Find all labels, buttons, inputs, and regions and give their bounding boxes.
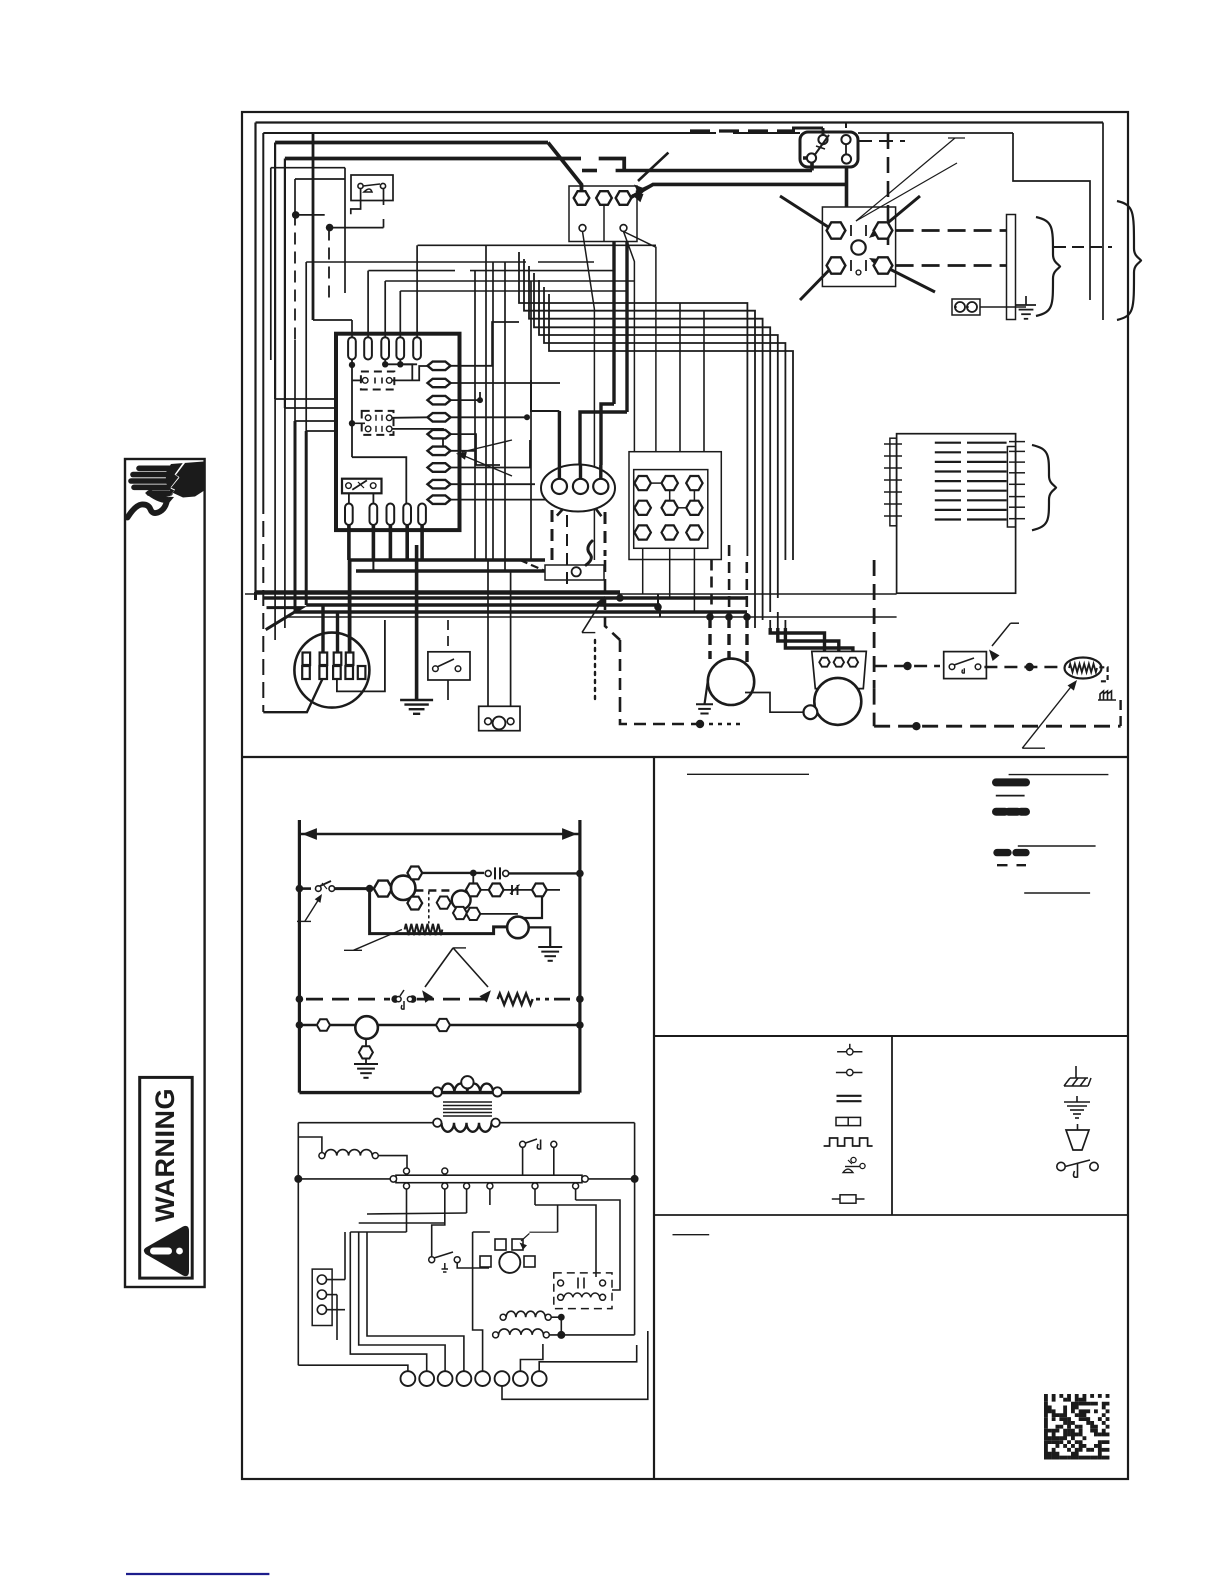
wire thick pair to pressure switch: [582, 169, 597, 173]
wire riser col B: [328, 229, 330, 303]
run capacitor: [812, 651, 867, 688]
symbol: thermostat switch: [1057, 1162, 1065, 1170]
circular plug connector: [294, 633, 369, 708]
blade: [815, 135, 829, 155]
wire igniter lead 1: [487, 560, 489, 706]
wire pin6: [451, 450, 476, 452]
svg-text:WARNING: WARNING: [150, 1088, 180, 1222]
board edge connector pills top: [348, 337, 356, 359]
legend rule 3: [1024, 892, 1090, 894]
wire t4: [367, 1232, 464, 1371]
wire: [679, 303, 681, 452]
leader arrow to door switch: [305, 896, 321, 922]
relay terminal 4: [874, 257, 893, 273]
right pin strip: [1007, 447, 1015, 528]
blue footer link line: [126, 1573, 269, 1575]
rung 1: door switch: [299, 887, 311, 890]
low voltage terminal: [532, 1371, 547, 1386]
board connector pin: [428, 413, 451, 422]
wire: [432, 1189, 445, 1257]
wires left joining connector: [254, 592, 257, 600]
integrated furnace control board: [336, 334, 460, 530]
relay terminal 1: [827, 222, 846, 238]
sub-rung top with capacitor: [421, 872, 484, 874]
board connector pin: [428, 463, 451, 472]
thermostat terminal block: [569, 186, 637, 242]
block leads below: [642, 548, 644, 594]
wire board lead down: [405, 525, 409, 560]
junction terminal: [662, 501, 678, 515]
wires into blower box: [830, 616, 897, 618]
switch blade: [363, 184, 380, 186]
blade: [352, 480, 367, 489]
cable brace right: [1036, 217, 1060, 316]
riser pill4: [399, 291, 401, 337]
low voltage terminal: [513, 1371, 528, 1386]
motor ground: [696, 703, 713, 705]
wire dashed: [604, 512, 607, 556]
left vertical wire bundle: [254, 123, 256, 593]
oval pin 2: [573, 479, 588, 494]
cap terminal 1: [819, 658, 829, 667]
wire to ground: [415, 545, 419, 700]
hex terminal: [436, 1019, 450, 1031]
wire from bus: [588, 1178, 634, 1180]
symbols box bottom divider: [654, 1214, 1128, 1216]
warning triangle icon: [144, 1226, 189, 1276]
wire trunk: [625, 242, 628, 413]
sidebar box: [125, 459, 205, 1287]
terminal G: [579, 225, 586, 232]
power bus bar: [396, 1175, 582, 1183]
cable brace far right: [1117, 201, 1141, 320]
wire top bus 5: [271, 167, 345, 169]
legend title underline left: [687, 773, 809, 775]
blade: [954, 658, 974, 665]
wire highway 5 thick: [295, 610, 747, 614]
wire board lead down: [389, 525, 393, 560]
wire pin2: [451, 382, 561, 384]
arrow into hex pin6: [462, 440, 512, 452]
ladder ground left: [354, 1063, 378, 1065]
board connector pin: [428, 447, 451, 456]
wire pin5: [451, 434, 501, 465]
wire harness run: [529, 266, 763, 620]
junction terminal: [686, 476, 702, 490]
right drop: [634, 1123, 636, 1335]
ladder right rail: [578, 820, 581, 1093]
connector pins row 1: [303, 653, 311, 666]
symbol: dual element: [836, 1117, 861, 1125]
wire bus 271: [368, 270, 614, 272]
strip terminal: [317, 1305, 326, 1314]
hot surface igniter: [479, 706, 520, 730]
datamatrix code: [1044, 1394, 1109, 1459]
legend sample: low voltage factory: [996, 795, 1025, 797]
hex terminal: [407, 867, 422, 880]
connector lead diagonal: [263, 679, 322, 712]
wire dashed: [728, 545, 731, 618]
warning label box: [140, 1077, 193, 1278]
wire right edge drop: [1102, 123, 1104, 321]
left drop: [297, 1123, 299, 1366]
flame rollout circle: [507, 917, 529, 939]
junction: [725, 613, 733, 621]
board connector pin: [428, 430, 451, 439]
lead up: [822, 128, 825, 135]
relay K1 dashed: [361, 372, 394, 390]
symbol: thermal switch: [837, 1051, 862, 1053]
wire K1 to hex1: [392, 366, 428, 380]
legend sample: fat dashes: [997, 849, 1026, 856]
rung 2 dashed thermostat: [296, 995, 304, 1003]
board connector pin: [428, 495, 451, 504]
hex terminal: [532, 884, 547, 897]
wire bus B: [356, 569, 545, 573]
wire pin7: [451, 440, 531, 468]
dashed runs from relay to right harness: [896, 229, 1006, 232]
terminal W: [574, 191, 590, 205]
wire cap lead 3: [785, 628, 853, 652]
wire: [703, 311, 705, 452]
mid cluster: [415, 889, 452, 891]
wire stubs into board left: [275, 398, 336, 400]
gas valve solenoid box: [545, 565, 604, 580]
speed tap dashed rows: [935, 442, 961, 444]
wire harness run: [524, 259, 755, 628]
terminal Y: [616, 191, 632, 205]
wire pin9: [451, 499, 561, 501]
wire trunk: [485, 245, 487, 560]
junction: [743, 613, 751, 621]
symbol: capacitor plates: [837, 1095, 862, 1097]
jumper links: [651, 482, 662, 484]
wire harness run: [539, 280, 778, 598]
legend sample: line voltage field dashed fat: [996, 808, 1026, 816]
wire t7: [520, 1344, 543, 1371]
relay coil 2: [452, 891, 471, 910]
motor aux terminal: [804, 705, 818, 719]
indicator ground: [359, 1046, 373, 1058]
low voltage terminal: [419, 1371, 434, 1386]
wire bus 291: [400, 290, 627, 292]
junction terminal: [635, 525, 651, 539]
ladder bottom rail: [299, 1091, 580, 1094]
wire dashed: [551, 510, 554, 565]
ground near plug: [1016, 304, 1036, 306]
blower deck box: [897, 434, 1016, 594]
hex terminal: [466, 884, 481, 897]
relay K2 dashed: [362, 411, 394, 435]
wire motor lead: [708, 617, 711, 659]
blade: [320, 881, 331, 886]
junction: [616, 594, 624, 602]
bus terminal: [404, 1183, 410, 1189]
wire dash-dot: [520, 560, 545, 571]
ladder left rail: [298, 820, 301, 1093]
heat resistor oval: [1065, 658, 1102, 679]
strip terminal: [317, 1275, 326, 1284]
switch hook: [962, 668, 964, 673]
wire pin8: [451, 483, 536, 485]
oval pin 3: [593, 479, 608, 494]
wire t6: [502, 1331, 648, 1399]
junction terminal: [686, 525, 702, 539]
wire col 168: [270, 168, 272, 360]
vertical divider lower panels: [653, 757, 655, 1479]
crossing wires into relay: [780, 196, 836, 232]
mid maze horizontals: [350, 1231, 406, 1233]
wire board lead down: [420, 525, 424, 560]
wire bus from terminal Y: [630, 184, 847, 198]
board connector pin: [428, 480, 451, 489]
condenser motor: [814, 678, 861, 725]
OO plug: [952, 299, 980, 315]
junction box terminal block: [629, 452, 721, 560]
wire cap lead 2: [778, 628, 839, 652]
wire return: [370, 889, 507, 934]
junction: [912, 722, 920, 730]
junction: [366, 885, 374, 893]
capacitor 2: [512, 885, 518, 895]
leader to resistor: [353, 930, 402, 951]
wire K2 to hex4: [392, 416, 428, 419]
wire: [518, 897, 542, 918]
line coil: [298, 1137, 322, 1153]
wire: [400, 364, 412, 380]
wire riser col A: [312, 133, 315, 320]
connector strip: [1007, 215, 1016, 320]
hex terminal: [374, 881, 392, 897]
wire trunk: [612, 242, 615, 405]
wire dashed: [745, 562, 748, 618]
induced draft relay: [822, 207, 895, 287]
wire dashed horiz: [874, 725, 998, 728]
lower circuit top rails: [298, 1122, 433, 1124]
wire dashed: [710, 560, 713, 618]
wire highway 4 thick: [306, 603, 660, 607]
indicator: [355, 1016, 378, 1039]
oval leads down dashed: [552, 509, 563, 521]
junction terminal: [662, 525, 678, 539]
wire harness run: [544, 287, 785, 560]
winding coils: [500, 1314, 506, 1320]
wire to bus: [298, 1178, 390, 1180]
page frame outer border: [242, 112, 1128, 1479]
aux switch below bus: [429, 1257, 435, 1263]
wire dashed drop: [447, 620, 449, 652]
wire dashed: [566, 515, 568, 592]
low voltage terminal: [401, 1371, 416, 1386]
hex terminal: [466, 908, 480, 920]
wire trunk: [492, 262, 494, 560]
junction terminal: [635, 476, 651, 490]
wire t2: [350, 1232, 426, 1371]
wire top bus 1: [256, 121, 1104, 123]
pressure switch: [800, 132, 858, 167]
wire highway 3 thick: [263, 596, 746, 600]
bus terminal: [573, 1183, 579, 1189]
dashed dotted runs near bottom: [594, 640, 596, 700]
left pin strip: [890, 438, 897, 526]
wire bus 245: [418, 244, 657, 246]
junction terminal: [686, 501, 702, 515]
board pills bottom: [345, 504, 353, 526]
terminal C: [620, 225, 627, 232]
door switch box: [351, 175, 393, 201]
board connector pin: [428, 379, 451, 387]
capacitor marks between relay terminals: [851, 225, 866, 236]
relay terminal 3: [827, 257, 846, 273]
hex terminal: [317, 1019, 330, 1030]
wire top bus 2: [263, 132, 716, 134]
wire igniter lead 2: [510, 571, 512, 706]
bus terminal: [464, 1183, 470, 1189]
wire: [745, 693, 804, 713]
solenoid terminal: [572, 567, 581, 576]
bus terminal: [532, 1183, 538, 1189]
legend box bottom divider: [654, 1035, 1128, 1037]
riser pill5: [416, 245, 418, 337]
symbol: heater element square wave: [824, 1138, 873, 1146]
wire trunk: [474, 271, 476, 560]
wire highway 1: [245, 593, 897, 595]
wire motor lead: [745, 617, 748, 662]
double leader arrows: [453, 947, 466, 949]
junction terminal: [635, 501, 651, 515]
wire board lead down: [347, 525, 351, 560]
junction: [706, 613, 714, 621]
cable brace blower: [1032, 445, 1056, 530]
cap terminal 2: [834, 658, 844, 667]
wire diagonal into terminal block: [548, 143, 582, 193]
symbol: flame sensor cone: [1066, 1130, 1089, 1150]
motor: [499, 1252, 520, 1273]
capacitor dashed box: [554, 1273, 612, 1309]
wire bus 281: [385, 280, 634, 282]
connector leads top: [321, 605, 324, 653]
leader arrow to line voltage wire: [582, 632, 595, 634]
capacitor symbol: [578, 1278, 584, 1289]
wire board lead down: [372, 525, 376, 560]
pill lead dots: [349, 362, 355, 368]
symbol: fuse link: [836, 1072, 863, 1074]
junction: [654, 603, 662, 611]
wire pressure switch to relay box: [845, 167, 849, 207]
bus terminal: [487, 1183, 493, 1189]
legend heading rule: [1009, 774, 1109, 776]
hand shock icon: [128, 462, 204, 518]
terminal R: [596, 191, 612, 205]
transformer core: [443, 1101, 492, 1103]
junction: [903, 662, 911, 670]
wire right drop from bus2: [1013, 133, 1090, 300]
strip ticks: [1009, 441, 1025, 443]
wire t1: [298, 1365, 408, 1371]
cap terminal 3: [848, 658, 858, 667]
symbol: chassis ground: [1075, 1066, 1077, 1078]
rung 3 transformer primary feed: [296, 1021, 304, 1029]
junction node: [326, 224, 334, 232]
hex terminal: [489, 884, 504, 897]
wire col C: [344, 168, 346, 293]
relay coil: [391, 876, 415, 900]
leader arrow to resistor: [1022, 683, 1074, 748]
pressure switch SW on board: [342, 479, 382, 494]
divider between wiring diagram and lower panels: [242, 756, 1128, 758]
connector pins row 2: [302, 666, 310, 679]
capacitor: [495, 867, 500, 879]
blower motor: [708, 659, 754, 705]
wire harness run: [549, 294, 793, 560]
wire C lead: [624, 232, 635, 452]
strip terminal: [317, 1290, 326, 1299]
wire top bus 6: [295, 178, 345, 180]
legend sample: thin dashes: [997, 864, 1026, 866]
wire dashed: [873, 560, 876, 689]
voltage dimension arrow: [299, 833, 580, 836]
symbol: fuse: [832, 1198, 865, 1200]
left terminal strip: [312, 1269, 332, 1325]
oval pin 1: [552, 479, 567, 494]
wire highway 2 thick: [256, 590, 621, 594]
wire trunk: [530, 281, 532, 560]
hex terminal: [437, 897, 451, 909]
door interlock switch lower: [520, 1141, 526, 1147]
wire squiggle: [586, 541, 592, 565]
symbols box middle divider: [891, 1036, 893, 1215]
lead R down: [603, 205, 605, 241]
wire bus step down: [599, 159, 625, 171]
ladder ground right: [538, 946, 562, 948]
wire: [296, 214, 325, 216]
wire: [378, 1156, 407, 1176]
wire top bus 3 thick: [275, 141, 548, 145]
symbol: pressure switch glyph: [851, 1157, 856, 1162]
wire pin3: [451, 392, 481, 400]
wire t3: [359, 1232, 445, 1371]
symbol: earth ground: [1064, 1101, 1090, 1103]
board connector pin: [428, 362, 451, 371]
low voltage terminal: [438, 1371, 453, 1386]
wire dashed: [1054, 246, 1112, 248]
transformer secondary coil: [442, 1123, 492, 1132]
riser pill2: [367, 271, 369, 337]
wire top bus 4 thick: [285, 157, 581, 161]
junction: [470, 870, 477, 877]
wire G lead: [583, 232, 595, 561]
wire rung1 mid: [466, 889, 560, 891]
low voltage terminal: [495, 1371, 510, 1386]
wire harness run: [519, 252, 747, 556]
leader arrows to terminal block: [638, 153, 668, 181]
wiring maze verticals: [337, 1232, 345, 1340]
relay terminal 2: [874, 222, 893, 238]
junction terminal: [662, 476, 678, 490]
wire inside board: [351, 360, 353, 458]
wire C lead 2: [624, 232, 656, 452]
chassis ground center: [400, 699, 433, 701]
relay coil circle: [851, 240, 865, 254]
wire t8: [539, 1345, 637, 1371]
junction node: [292, 211, 300, 219]
low voltage terminal: [457, 1371, 472, 1386]
wire highway 6: [285, 616, 830, 618]
thermostat hook: [401, 1001, 404, 1009]
wire pin1: [451, 322, 520, 366]
wire t5: [473, 1232, 483, 1371]
wire bus A: [349, 558, 545, 562]
